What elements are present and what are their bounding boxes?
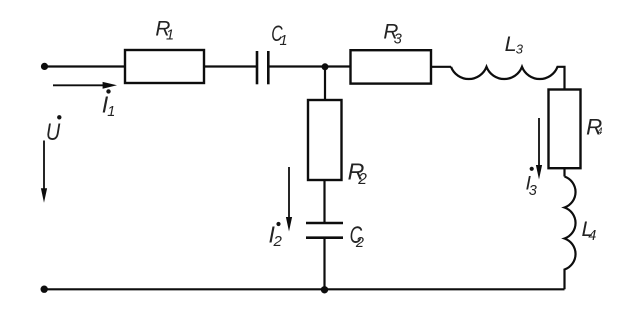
svg-text:3: 3	[529, 183, 537, 199]
svg-text:2: 2	[357, 171, 367, 188]
svg-text:1: 1	[107, 104, 115, 120]
svg-text:4: 4	[588, 228, 596, 244]
svg-text:2: 2	[355, 235, 364, 251]
svg-text:3: 3	[394, 31, 402, 47]
svg-text:4: 4	[597, 126, 602, 136]
svg-text:1: 1	[166, 28, 174, 44]
svg-text:3: 3	[516, 41, 524, 56]
svg-text:2: 2	[273, 233, 283, 250]
svg-text:U: U	[46, 118, 61, 145]
svg-text:1: 1	[280, 33, 288, 49]
